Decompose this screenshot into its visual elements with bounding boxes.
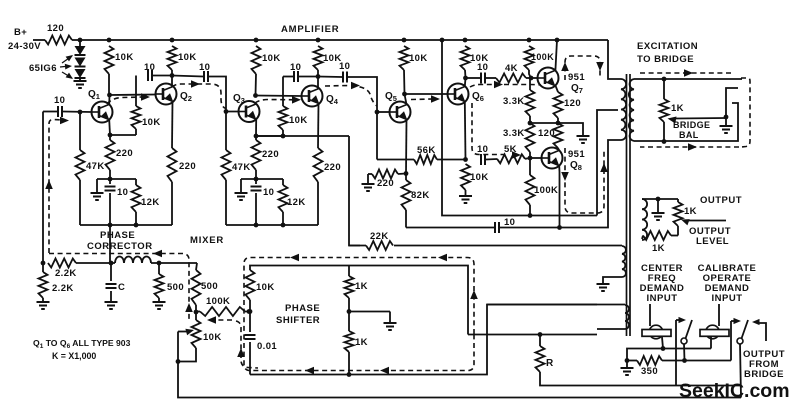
wire Q3 emitter stub [255, 119, 257, 136]
wire diode stack lead [79, 40, 81, 46]
node box1 b [134, 223, 139, 228]
ground box1 [91, 192, 104, 194]
wire y334 link [468, 334, 597, 336]
pot wiper bridge bal [676, 117, 726, 120]
wire c7 to Q8 emitter [500, 227, 560, 229]
node corrector in [41, 261, 46, 266]
svg-text:100K: 100K [531, 52, 554, 62]
ground 10K7 [459, 195, 472, 197]
resistor R-22K [349, 245, 366, 247]
svg-text:10: 10 [144, 62, 155, 73]
wire 100K3 leads [196, 311, 200, 313]
svg-text:BRIDGE: BRIDGE [744, 369, 784, 380]
svg-text:350: 350 [641, 366, 658, 377]
wire Q7 emitter [555, 85, 558, 92]
node 120 mid [556, 121, 561, 126]
wire fb2 bottom [256, 135, 283, 137]
resistor R-1K-sh1 [348, 266, 350, 277]
arrow to D2 [60, 66, 70, 67]
wire Q5 emitter [405, 120, 408, 174]
svg-text:951: 951 [568, 149, 585, 160]
capacitor C-10-c1 [147, 70, 149, 81]
wire Q5 base link [377, 111, 390, 113]
dashed excitation bottom [640, 146, 739, 148]
wire W3 top connect [487, 304, 597, 306]
wire S2 top lead [642, 198, 678, 200]
node wiper net [724, 115, 729, 120]
svg-text:PHASE: PHASE [285, 303, 320, 314]
node Q1 base [78, 110, 83, 115]
svg-text:4K: 4K [505, 63, 518, 74]
resistor R-3.3K-1 [529, 78, 531, 90]
resistor R-220-4 [314, 148, 323, 182]
node rail-10K4 [316, 38, 321, 43]
ground S2 [652, 212, 665, 214]
node Q5 emitter [404, 171, 409, 176]
svg-text:10K: 10K [178, 52, 197, 63]
svg-text:10K: 10K [409, 53, 428, 64]
node box2 b [281, 223, 286, 228]
svg-text:EXCITATION: EXCITATION [637, 41, 698, 52]
svg-text:10K: 10K [142, 117, 161, 128]
svg-text:10: 10 [504, 217, 515, 228]
node fb2 [281, 134, 286, 139]
capacitor C-10-c3 [293, 71, 295, 82]
wire 500-1 gnd [158, 298, 160, 302]
node S1 bottom [662, 139, 667, 144]
wire 10K6 to Q6 collector [464, 70, 467, 78]
wire 220-2 to box1 [171, 182, 173, 225]
resistor R-56K [414, 155, 437, 164]
dashed corrector line [49, 254, 189, 323]
wire 10K1 to Q1 collector [108, 74, 110, 95]
arrow to D3 [62, 72, 72, 78]
node rail-Q7 [555, 38, 560, 43]
svg-text:10: 10 [339, 61, 350, 72]
wire input riser [42, 112, 44, 264]
svg-text:BRIDGE: BRIDGE [673, 120, 710, 130]
wire cap c4 to Q5 base [348, 77, 377, 112]
wire 220-5 gnd lead [367, 174, 369, 184]
svg-text:LEVEL: LEVEL [696, 236, 729, 247]
node rail-diode [78, 38, 83, 43]
wire 47K to box [79, 180, 81, 225]
node jack1 [661, 346, 666, 351]
wire pot bottom [178, 348, 196, 362]
wire Q1 emitter stub [108, 120, 111, 136]
resistor R-3.3K-2 [526, 123, 535, 152]
wire 120 gnd arm [558, 123, 583, 136]
wire Q8 emitter [558, 165, 560, 227]
svg-text:951: 951 [568, 72, 585, 83]
svg-text:220: 220 [179, 161, 196, 172]
svg-text:SHIFTER: SHIFTER [276, 315, 320, 326]
wire SW2 down [740, 344, 741, 398]
capacitor C-c [110, 263, 112, 281]
wire S1 bottom lead [634, 103, 738, 141]
core line 1 [626, 74, 628, 336]
svg-text:100K: 100K [534, 185, 558, 196]
wire jack2 lead [710, 337, 712, 349]
wire wiper stub up [726, 88, 738, 117]
wire jack1 lead [662, 337, 663, 349]
svg-text:12K: 12K [287, 197, 306, 208]
node Q3 collector [253, 93, 258, 98]
resistor R-R [539, 335, 541, 347]
node box1 a [108, 223, 113, 228]
potentiometer R-10K-mix [195, 312, 197, 320]
ground wiper [720, 125, 733, 127]
svg-text:47K: 47K [232, 162, 251, 173]
wire cap c1 right [153, 75, 172, 77]
dashed excitation right [741, 78, 750, 147]
wire Q4 emitter [317, 104, 320, 149]
wire mixer drop [349, 136, 360, 246]
transistor Q5 [390, 102, 411, 123]
potentiometer R-1K-level [674, 202, 683, 226]
winding S2 output [642, 199, 647, 240]
svg-text:120: 120 [47, 23, 64, 34]
wire Q2coll to cap c2 [172, 76, 203, 77]
svg-text:0.01: 0.01 [257, 341, 277, 352]
wire c6 to 5K [486, 158, 497, 161]
resistor R-4K [496, 74, 526, 83]
jack calibrate [718, 304, 720, 326]
wire W3 bottom lead [597, 328, 625, 330]
wire 1K mid gnd [348, 298, 350, 331]
node Q3 emitter [254, 134, 259, 139]
jack center freq [649, 304, 651, 326]
node shifter mid [248, 309, 253, 314]
node Q1 emitter [108, 133, 113, 138]
resistor R-82K [405, 174, 407, 181]
dashed Q6-Q7 [470, 85, 541, 88]
node Q2 collector [170, 73, 175, 78]
wire diode to ground [79, 78, 81, 81]
node Q5 collector [402, 92, 407, 97]
wire emitter net 2 [241, 178, 283, 180]
svg-text:2.2K: 2.2K [52, 283, 74, 294]
resistor R-10K-5 [400, 46, 409, 70]
ground 220-5 [362, 183, 375, 185]
wire Q8 base link [530, 157, 542, 159]
svg-text:PHASE: PHASE [100, 230, 135, 241]
winding W1 primary [621, 79, 626, 140]
node shifter bottom 1K [347, 372, 352, 377]
resistor R-120-1 [554, 92, 563, 118]
svg-text:AMPLIFIER: AMPLIFIER [281, 24, 339, 35]
winding W2 [622, 246, 626, 277]
resistor R-350 [627, 360, 637, 362]
wire y227 to xfmr [560, 140, 622, 228]
dashed input riser [49, 119, 62, 253]
switch SW1 feed [675, 320, 677, 386]
transistor Q6 [448, 84, 469, 105]
resistor R-10K-7 [461, 164, 470, 190]
capacitor C-10-box2 [255, 179, 257, 184]
node S2 top [656, 197, 661, 202]
wire 4K to Q7 [526, 77, 538, 79]
node box2 a [254, 223, 259, 228]
node Q4 collector [316, 74, 321, 79]
wire R bottom [540, 372, 741, 386]
dashed Q6 drop [472, 103, 508, 155]
wire cap to Q1 base [63, 111, 92, 114]
node wiper bottom [176, 359, 181, 364]
wire 10K3 to Q3 collector [255, 74, 258, 95]
ground 2.2K2 [37, 301, 50, 303]
node rail-10K1 [107, 38, 112, 43]
resistor R-2.2K-2 [42, 263, 44, 272]
resistor R-10K-3 [252, 46, 261, 74]
wire shifter top [250, 266, 468, 335]
svg-text:12K: 12K [141, 197, 160, 208]
wire input to cap [43, 111, 57, 113]
wire 220-1 to node [109, 170, 111, 179]
resistor R-5K [497, 154, 525, 163]
wire 10K7 gnd lead [465, 190, 467, 196]
wire 82K down [405, 210, 407, 228]
wire y215 to tap [531, 215, 597, 217]
svg-text:R: R [546, 358, 554, 369]
resistor R-10K-6 [461, 46, 470, 70]
svg-text:SeekIC.com: SeekIC.com [679, 380, 790, 402]
svg-text:220: 220 [324, 162, 341, 173]
inductor L1 [115, 257, 151, 264]
node Q8 emitter net [557, 225, 562, 230]
transistor Q1 [92, 102, 113, 123]
node Q6 emitter [463, 157, 468, 162]
wire emitter net 1 [97, 178, 136, 180]
node 3.3K mid [528, 121, 533, 126]
capacitor C-10-c7 [494, 222, 496, 233]
svg-text:2.2K: 2.2K [55, 268, 77, 279]
capacitor C-10-c2 [203, 71, 205, 82]
wire rail to xfmr [608, 40, 621, 79]
wire W3 top lead [597, 304, 625, 306]
svg-text:47K: 47K [86, 161, 105, 172]
resistor R-47K-2 [225, 112, 227, 151]
resistor R-220-3 [255, 136, 257, 140]
resistor R-10K-fb1 [135, 76, 137, 107]
switch SW2 feed [730, 321, 732, 361]
svg-text:1K: 1K [671, 103, 684, 114]
wire 3.3K-120 link [530, 122, 558, 124]
wire 220-3 to node [255, 170, 257, 179]
wire S2 gnd stem [657, 199, 659, 213]
svg-text:220: 220 [377, 178, 394, 189]
node rail-10K5 [402, 38, 407, 43]
wire 120-1 down [557, 118, 559, 123]
wire mixer tap [256, 135, 349, 137]
wire Q8 collector [558, 148, 559, 151]
resistor R-220-2 [168, 148, 177, 182]
wire Q1 collector link [110, 94, 156, 97]
node R top [538, 332, 543, 337]
wire Q7 collector [555, 40, 557, 71]
ground 120 arm [577, 135, 590, 137]
svg-text:10: 10 [477, 144, 488, 155]
resistor R-220-1 [109, 135, 111, 140]
node Q8 base [528, 156, 533, 161]
wire 5K to Q8 base [525, 157, 530, 160]
diode D2 [75, 58, 86, 67]
wire top rail [72, 39, 608, 41]
svg-text:500: 500 [167, 282, 184, 293]
diode D3 [75, 69, 86, 78]
wire Q6coll to cap c5 [466, 77, 481, 79]
svg-text:C: C [118, 282, 125, 293]
node Q3 base [224, 109, 229, 114]
node rail-10K6 [463, 38, 468, 43]
capacitor C-10-c6 [480, 154, 482, 165]
node emitter net 1 [108, 177, 113, 182]
wire 220-5 to emitter [398, 173, 406, 176]
svg-text:10K: 10K [256, 282, 275, 293]
wire 10K5 to Q5 collector [403, 70, 406, 94]
wire cap c2 to Q3 base [209, 77, 239, 112]
svg-text:1K: 1K [652, 243, 665, 254]
dashed Q1-Q2 [107, 97, 142, 104]
pot wiper output level [686, 220, 726, 222]
node mixer pot top [194, 310, 199, 315]
capacitor C-10-c5 [480, 73, 482, 84]
node emitter net 2 [254, 177, 259, 182]
resistor R-100K-2 [529, 158, 531, 175]
node 1K mid [347, 309, 352, 314]
resistor R-1K-out [677, 226, 679, 236]
svg-text:10: 10 [290, 62, 301, 73]
svg-text:10K: 10K [262, 53, 281, 64]
wire gnd stem box2 [240, 179, 242, 193]
capacitor C-0.01 [249, 312, 251, 333]
wire 56K right lead [437, 159, 466, 161]
capacitor C-10-box1 [109, 179, 111, 184]
dashed Q8 loop [565, 148, 604, 213]
svg-text:B+: B+ [14, 27, 27, 38]
wire gnd stem box1 [96, 179, 98, 193]
wire box1 to corrector [109, 225, 111, 263]
wire cap c5 to 4K [486, 77, 496, 79]
svg-text:INPUT: INPUT [647, 293, 678, 304]
wire corrector c [151, 262, 197, 264]
node 350 right [682, 358, 687, 363]
node rail-100K [527, 38, 532, 43]
svg-text:1K: 1K [355, 337, 368, 348]
node S1 top [662, 77, 667, 82]
node rail-10K3 [254, 38, 259, 43]
svg-text:56K: 56K [417, 145, 436, 156]
node rail-10K2 [170, 38, 175, 43]
node Q1 collector [107, 93, 112, 98]
ground diode stack [74, 80, 87, 82]
wire cap c3 right [299, 76, 318, 78]
wire 10K4 to Q4 [317, 70, 319, 89]
svg-text:22K: 22K [370, 231, 389, 242]
svg-text:MIXER: MIXER [190, 235, 224, 246]
wire box1 bottom [80, 224, 172, 226]
wire S1 top lead [634, 78, 742, 80]
resistor R-1K-sh2 [345, 331, 354, 352]
switch SW2 contact [737, 338, 743, 344]
ground 500-1 [153, 301, 166, 303]
wire B+ lead [33, 39, 45, 41]
dashed Q3-Q4 [255, 100, 295, 104]
svg-text:TO BRIDGE: TO BRIDGE [637, 54, 694, 65]
wire 220-4 to box2 [317, 182, 319, 225]
transistor Q4 [302, 86, 323, 107]
transistor Q3 [239, 101, 260, 122]
wire 100K1 to Q7 base [529, 70, 531, 78]
wire 350 to sw2 feed [685, 360, 732, 362]
capacitor C-10-c4 [342, 72, 344, 83]
wire Q6 emitter [464, 102, 467, 160]
winding W3 [625, 305, 629, 329]
transistor Q8 [542, 148, 563, 169]
wire cap c3 left [283, 76, 293, 78]
svg-text:INPUT: INPUT [712, 293, 743, 304]
dashed Q4-Q5 [325, 86, 377, 107]
node 350 left [625, 358, 630, 363]
wire Q4coll to cap c4 [318, 76, 342, 79]
wire fb1 bottom [110, 134, 136, 136]
svg-text:82K: 82K [411, 190, 430, 201]
svg-text:10K: 10K [203, 332, 222, 343]
svg-text:65IG6: 65IG6 [29, 63, 57, 74]
svg-text:220: 220 [116, 148, 133, 159]
transistor Q7 [538, 68, 559, 89]
resistor R-10K-fb2 [282, 77, 284, 107]
core line 2 [629, 74, 631, 336]
ground box2 [235, 192, 248, 194]
resistor R-47K-1 [79, 112, 81, 150]
wire rail drop x442 [442, 40, 531, 216]
svg-text:10: 10 [263, 187, 274, 198]
wire Q1 collector stub [108, 95, 110, 105]
potentiometer R-1K-bal [663, 79, 665, 99]
winding S1 excitation [629, 79, 634, 141]
svg-text:1K: 1K [684, 206, 697, 217]
dashed mixer vert [236, 321, 258, 368]
node corrector d [157, 261, 162, 266]
svg-text:K = X1,000: K = X1,000 [52, 351, 96, 361]
dashed Q7 loop [565, 56, 600, 80]
resistor R-220-5 [368, 173, 372, 175]
dashed mixer hook [212, 319, 232, 321]
resistor R-10K-1 [105, 46, 114, 74]
dashed Q5-Q6 [411, 98, 433, 101]
resistor R-120-2 [554, 123, 563, 148]
svg-text:24-30V: 24-30V [8, 41, 41, 52]
wire box2 bottom [226, 224, 318, 226]
switch SW2 arm [742, 320, 749, 339]
wire Q2 emitter [171, 102, 174, 149]
dashed Q2-Q3 [172, 84, 226, 109]
wire Q3 collector link [256, 95, 302, 98]
resistor R-100K-3 [200, 307, 245, 316]
svg-text:3.3K: 3.3K [503, 96, 525, 107]
wire shifter bottom [250, 305, 597, 375]
svg-text:10: 10 [117, 187, 128, 198]
node Q6 collector [463, 76, 468, 81]
svg-text:10K: 10K [289, 115, 308, 126]
wire wiper to bottom rail [178, 362, 741, 398]
wire Q5 collector stub [405, 94, 407, 105]
diode D1 [75, 46, 86, 55]
svg-text:10: 10 [199, 62, 210, 73]
ground W2 [597, 283, 610, 285]
node corrector b [109, 261, 114, 266]
